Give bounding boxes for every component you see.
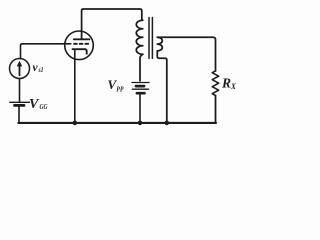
triode cathode lead to rail	[74, 49, 76, 123]
battery VPP plate short 1	[136, 85, 144, 88]
source v_s1 circle	[10, 59, 30, 79]
wire VPP bottom to rail	[139, 95, 141, 123]
junction dot VPP/rail	[138, 121, 143, 126]
triode U1 envelope	[65, 31, 94, 60]
label v_s1	[33, 62, 44, 74]
label R_X	[221, 75, 237, 91]
svg-text:PP: PP	[116, 85, 123, 94]
label V_GG	[29, 97, 48, 112]
wire grid loop: tube grid left to corner down to source top	[21, 44, 71, 59]
triode plate lead and top wire to transformer	[82, 9, 142, 39]
resistor RX zigzag	[212, 71, 219, 96]
svg-text:s1: s1	[38, 66, 44, 74]
junction dot secondary/rail	[165, 121, 170, 126]
transformer core line 2	[151, 18, 153, 59]
transformer core line 1	[148, 18, 150, 59]
wire source bottom to battery VGG	[19, 79, 21, 102]
svg-text:GG: GG	[40, 103, 48, 111]
junction dot cathode/rail	[73, 121, 78, 126]
battery VPP plate short 2	[137, 92, 145, 95]
battery VPP plate long 1	[132, 82, 149, 84]
wire RX bottom to rail right corner	[215, 95, 218, 123]
transformer primary coil	[136, 19, 142, 54]
svg-text:R: R	[221, 75, 231, 90]
wire secondary top to RX	[157, 37, 215, 71]
svg-text:X: X	[230, 82, 236, 91]
battery VGG short plate	[15, 104, 25, 107]
wire VGG bottom to rail	[18, 107, 20, 123]
bottom rail wire	[18, 122, 216, 124]
battery VGG long plate	[10, 101, 30, 103]
source v_s1 arrow	[19, 65, 21, 76]
battery VPP plate long 2	[132, 88, 148, 90]
wire secondary bottom jog down-right-down to rail	[157, 51, 167, 123]
wire primary bottom to VPP battery	[140, 54, 143, 81]
triode cathode	[73, 49, 87, 54]
triode plate bar	[74, 38, 90, 40]
label V_PP	[108, 77, 124, 93]
transformer secondary coil	[157, 37, 162, 51]
triode grid (dashed)	[73, 43, 89, 45]
